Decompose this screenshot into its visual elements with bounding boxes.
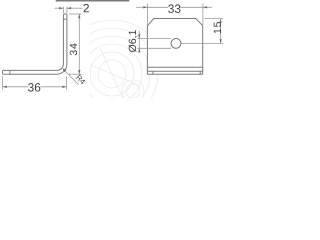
plate white fill	[147, 19, 202, 75]
label 15	[214, 22, 221, 33]
arrow of R4 leader	[63, 69, 67, 73]
dim line right tail	[203, 6, 212, 8]
arrow top of 15	[219, 19, 221, 23]
dimension 2 (thickness)	[55, 7, 83, 13]
vertical leg outline	[3, 14, 67, 74]
dim line	[78, 14, 80, 74]
hole	[171, 39, 181, 49]
dim line left segment	[147, 6, 168, 8]
dim line left tail	[55, 7, 64, 9]
dim line left segment	[3, 86, 28, 88]
foot chamfer tick right	[199, 71, 201, 74]
foot edge line	[147, 70, 202, 72]
dim line	[138, 31, 140, 53]
arrow right of 2	[67, 7, 71, 9]
top border line	[56, 0, 130, 2]
arrow left of 33	[143, 6, 147, 8]
label 34	[70, 44, 77, 56]
dimension 33 (width)	[136, 4, 212, 26]
bar right edge	[66, 14, 68, 64]
label 36	[28, 83, 40, 92]
angle body white fill	[3, 14, 67, 74]
bar top edge	[63, 13, 67, 15]
dim line left tail	[136, 6, 147, 8]
label R4	[76, 75, 86, 85]
left extension line	[146, 4, 148, 26]
arrow top of 34	[78, 14, 80, 18]
leader R4	[63, 69, 79, 85]
label Ø6,1	[129, 30, 138, 52]
dim line right to text	[67, 7, 83, 9]
arrow bottom of 34	[78, 70, 80, 74]
dimension 36 (foot length)	[3, 76, 67, 89]
arrow above hole dim	[138, 34, 140, 38]
top extension line	[205, 18, 224, 20]
arrow left of 2	[59, 7, 63, 9]
inner bend arc R4	[57, 64, 63, 70]
right extension line	[202, 4, 204, 26]
arrow below hole dim	[138, 48, 140, 52]
extension of bar edges above	[62, 7, 64, 13]
outer bend arc	[57, 64, 67, 74]
arrow bottom of 15	[219, 39, 221, 43]
foot chamfer edge tick	[9, 70, 11, 74]
bottom extension line	[69, 73, 82, 75]
bottom extension line	[137, 47, 171, 49]
top extension line	[69, 13, 82, 15]
bend tangent line	[147, 66, 202, 68]
arrow right of 36	[62, 86, 66, 88]
foot left end cap	[2, 70, 4, 74]
arrow right of 33	[203, 6, 207, 8]
top extension line	[137, 37, 171, 39]
dim line right segment	[40, 86, 66, 88]
dimension 15 (hole position)	[181, 19, 223, 44]
bottom extension line (from hole centre)	[181, 42, 223, 44]
label 2	[84, 4, 89, 12]
foot bottom edge	[3, 73, 57, 75]
label 33	[168, 4, 180, 13]
chamfer edge tick	[63, 18, 67, 20]
dimension 34 (height)	[69, 14, 82, 74]
left extension line	[2, 76, 4, 89]
plate outline	[147, 19, 202, 75]
dimension Ø6,1 (hole)	[137, 31, 171, 53]
foot top edge	[3, 69, 57, 71]
foot chamfer tick left	[152, 71, 154, 74]
dim line	[220, 19, 222, 44]
dim line right segment	[180, 6, 203, 8]
arrow left of 36	[3, 86, 7, 88]
right extension line	[65, 76, 67, 89]
bar left edge	[62, 14, 64, 64]
